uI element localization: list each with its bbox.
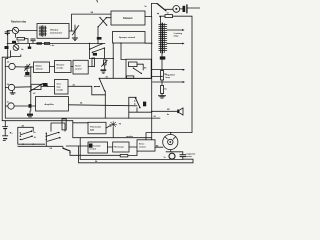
- wire buzzer right: [188, 7, 201, 9]
- box thermostat control: [88, 142, 108, 153]
- wire lamp stem: [112, 127, 114, 137]
- svg-text:motor: motor: [187, 155, 193, 158]
- motor M3: [169, 153, 175, 159]
- wire motor bottom stem: [170, 150, 172, 152]
- wire: [104, 95, 106, 119]
- svg-text:speaker: speaker: [126, 136, 133, 138]
- wire: [15, 34, 17, 38]
- wire: [14, 105, 35, 107]
- capacitor C2: [12, 41, 16, 44]
- wire bottom rail1: [80, 158, 183, 160]
- svg-text:Servo: Servo: [139, 144, 145, 146]
- wire thermo light feed: [73, 122, 88, 124]
- wire: [128, 103, 130, 118]
- wire: [128, 151, 137, 156]
- wire arrow tap2: [167, 43, 185, 45]
- wire arrow tap3: [153, 81, 186, 83]
- wire: [70, 154, 120, 156]
- wire: [151, 17, 153, 140]
- tick top edge: [96, 0, 99, 2]
- wire filament to switch riser: [145, 3, 157, 16]
- svg-text:Filament: Filament: [123, 17, 133, 20]
- capacitor C10: [29, 104, 32, 108]
- capacitor C8: [25, 71, 31, 76]
- transformer T2: [159, 23, 167, 53]
- wire: [129, 111, 152, 113]
- svg-text:circuits: circuits: [57, 89, 64, 92]
- wire: [68, 85, 92, 87]
- switch S5: [92, 78, 106, 95]
- box filament: [111, 11, 145, 25]
- switch S4 blades: [89, 43, 105, 53]
- wire bottom rail2: [79, 159, 194, 163]
- svg-text:circuits: circuits: [57, 67, 64, 70]
- resistor R1: [17, 37, 25, 40]
- wire: [19, 30, 37, 32]
- variable inductor L2: [30, 84, 44, 96]
- battery B1: [3, 127, 8, 141]
- svg-text:B4: B4: [156, 144, 158, 147]
- box amplifier: [36, 97, 69, 111]
- svg-text:control: control: [90, 148, 97, 151]
- regulator VR1: [73, 25, 79, 37]
- wire: [69, 151, 71, 155]
- component small box left: [62, 119, 66, 130]
- wire: [129, 146, 137, 148]
- wire: [71, 66, 73, 68]
- capacitor bus blob: [160, 56, 166, 59]
- relay K1: [12, 27, 18, 33]
- ground: [27, 111, 33, 117]
- wire long rail2: [2, 120, 73, 122]
- component tab: [127, 76, 134, 78]
- wire: [106, 126, 111, 129]
- svg-text:Tuner/: Tuner/: [75, 65, 81, 67]
- resistor R2: [45, 42, 50, 44]
- wire: [88, 66, 92, 68]
- svg-text:Hs: Hs: [21, 49, 23, 51]
- wire column: [30, 67, 32, 111]
- wire verticals bottom: [78, 146, 80, 163]
- svg-text:Osc./: Osc./: [57, 84, 62, 86]
- switch S8 rotary: [46, 123, 65, 146]
- wire: [25, 39, 29, 44]
- wire 6v rail: [7, 42, 105, 44]
- box sprayer control: [113, 32, 146, 44]
- switch S9: [62, 147, 70, 153]
- wire motor stem: [170, 133, 172, 135]
- capacitor C9 black: [43, 83, 48, 86]
- resistor R4: [161, 71, 164, 81]
- wire stem V2: [5, 87, 8, 89]
- relay K2: [129, 62, 147, 74]
- wire: [72, 121, 74, 138]
- wire 24v top rail: [72, 14, 112, 31]
- capacitor C12: [180, 152, 186, 160]
- wire left bus outer: [2, 51, 10, 121]
- wire battery drop: [4, 121, 6, 127]
- resistor R6: [120, 154, 128, 157]
- box servo control: [137, 140, 155, 151]
- wire: [155, 146, 163, 148]
- wire: [66, 145, 88, 147]
- capacitor C6: [97, 37, 102, 40]
- switch S1: [98, 17, 112, 28]
- ground: [10, 91, 15, 95]
- capacitor C5: [28, 43, 31, 49]
- box af amp: [55, 80, 69, 95]
- svg-text:Thermostat: Thermostat: [90, 125, 101, 128]
- resistor R7: [92, 58, 95, 67]
- svg-text:Sprayer control: Sprayer control: [119, 36, 136, 39]
- wire to far right: [173, 15, 193, 17]
- wire: [29, 66, 34, 68]
- buzzer: [180, 5, 187, 13]
- wire bus: [161, 52, 163, 71]
- wire stem V1: [5, 66, 9, 68]
- wire: [69, 30, 75, 32]
- relay armature circle: [13, 43, 19, 50]
- switch S7 rotary: [18, 125, 45, 145]
- svg-text:Ratchet relay: Ratchet relay: [11, 20, 27, 23]
- wire: [15, 86, 31, 88]
- wire: [88, 43, 90, 58]
- wire far right vertical: [146, 16, 192, 140]
- svg-text:Thermostat/: Thermostat/: [90, 145, 101, 148]
- wire left bus inner: [5, 43, 7, 118]
- wire arrow tap1: [167, 29, 185, 31]
- box thermocouple: [113, 142, 129, 152]
- lamp: [110, 121, 117, 127]
- wire arrow lamp: [152, 69, 185, 71]
- switch S6: [129, 97, 141, 108]
- wire right bus: [145, 42, 152, 44]
- svg-text:selector: selector: [36, 68, 44, 71]
- tube V2: [8, 84, 14, 90]
- ground: [72, 38, 77, 40]
- transformer T1 box: [37, 24, 69, 39]
- capacitor C13 blob: [5, 46, 9, 49]
- svg-text:24: 24: [154, 115, 156, 118]
- svg-text:K2: K2: [144, 68, 146, 70]
- wire long rail: [5, 117, 160, 119]
- box row1 rf amp: [55, 61, 72, 73]
- svg-text:light: light: [90, 128, 95, 131]
- resistor R5: [161, 86, 164, 94]
- wire: [8, 31, 13, 44]
- wire: [151, 75, 162, 77]
- capacitor C7: [93, 53, 97, 56]
- capacitor C11 black: [143, 102, 146, 107]
- wire: [79, 138, 81, 160]
- svg-text:relay: relay: [174, 35, 180, 38]
- svg-text:Vibrator: Vibrator: [50, 28, 58, 31]
- wire: [104, 65, 106, 69]
- svg-text:Amplifier: Amplifier: [45, 103, 55, 106]
- wire: [15, 66, 25, 68]
- switch S3: [157, 4, 173, 18]
- wire: [161, 80, 163, 86]
- wire: [89, 58, 113, 60]
- wire: [104, 48, 106, 59]
- wire transformer top: [160, 17, 162, 23]
- resistor R3: [165, 15, 173, 18]
- wire: [69, 105, 138, 106]
- wire: [108, 146, 113, 148]
- capacitor C3: [37, 42, 43, 44]
- box thermostat light: [88, 122, 106, 134]
- svg-text:2c: 2c: [7, 102, 9, 104]
- wire relay drop: [121, 43, 126, 60]
- ground: [159, 94, 166, 99]
- box row1 detector: [34, 62, 50, 73]
- motor M1: [173, 5, 180, 12]
- wire: [18, 145, 63, 147]
- ground: [101, 69, 107, 73]
- tube V1: [9, 63, 15, 69]
- speaker SP1: [177, 108, 183, 115]
- capacitor C14: [5, 31, 10, 36]
- box tuner: [73, 60, 88, 74]
- resistor R8: [103, 60, 106, 65]
- wire: [166, 151, 183, 153]
- svg-text:control: control: [75, 67, 82, 70]
- svg-text:Thermocpl: Thermocpl: [114, 147, 124, 149]
- transformer T1 windings: [39, 26, 47, 37]
- svg-text:Receiver: Receiver: [57, 65, 65, 67]
- wire sprayer drop: [112, 43, 114, 78]
- wire stem V3: [5, 105, 8, 107]
- wire bracket: [11, 55, 21, 57]
- wire speaker line: [152, 110, 178, 112]
- svg-text:1 setting: 1 setting: [174, 32, 183, 35]
- variable capacitor CV1: [25, 64, 31, 71]
- wire: [41, 85, 55, 87]
- svg-text:control: control: [139, 146, 146, 149]
- wire arrow R8: [102, 60, 108, 66]
- svg-text:transformer: transformer: [50, 31, 62, 34]
- node dots: [22, 43, 171, 145]
- wire: [97, 27, 99, 37]
- wire speaker rail: [73, 137, 152, 139]
- wire: [136, 108, 138, 112]
- motor M2: [163, 134, 178, 149]
- svg-text:A2: A2: [22, 125, 24, 128]
- tube V3: [8, 103, 14, 109]
- relay box: [126, 59, 151, 78]
- wire: [160, 15, 166, 17]
- wire: [50, 66, 55, 68]
- capacitor C15: [31, 39, 35, 43]
- wire: [99, 77, 151, 79]
- wire: [97, 40, 99, 44]
- svg-text:Station: Station: [36, 65, 43, 68]
